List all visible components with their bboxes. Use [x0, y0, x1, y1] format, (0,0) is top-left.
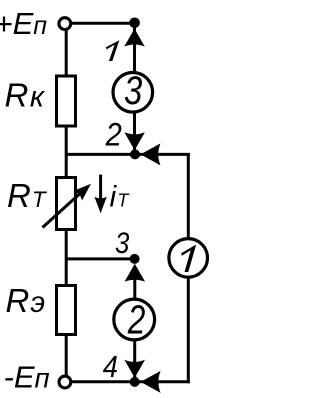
svg-text:Rк: Rк — [5, 77, 46, 114]
label 1 — [106, 40, 119, 61]
meter circle 1 — [169, 239, 208, 278]
svg-text:3: 3 — [115, 226, 130, 259]
wire Re to terminal — [65, 334, 68, 376]
meter circle 2 — [114, 299, 155, 340]
svg-text:2: 2 — [127, 296, 145, 342]
svg-text:3: 3 — [124, 68, 143, 113]
arrow up into node 1 — [124, 29, 145, 47]
node 2 dot — [130, 149, 140, 159]
svg-text:-Eп: -Eп — [4, 360, 50, 395]
wire Rk to Rt — [65, 126, 68, 178]
wire meter2 to node 4 — [133, 341, 136, 378]
arrow up into node 3 — [125, 264, 146, 282]
arrow left into node 4 from right branch — [141, 371, 161, 393]
resistor Rk — [57, 76, 76, 126]
digit 1 of meter — [181, 245, 196, 273]
wire node3 horizontal — [65, 257, 134, 260]
node 3 dot — [130, 254, 140, 264]
right branch wire lower (meter 1 to bottom corner) — [187, 278, 190, 384]
svg-text:2: 2 — [105, 117, 122, 153]
resistor Re — [57, 286, 76, 335]
wire meter3 to node 2 — [133, 113, 136, 153]
wire Rt to Re — [65, 230, 68, 285]
wire middle column upper (node1 to meter 3) — [133, 24, 136, 73]
terminal -Eп — [59, 376, 71, 388]
node 4 dot — [130, 377, 140, 387]
arrow left into node 2 from right branch — [141, 143, 161, 165]
wire top (terminal to node 1) — [71, 22, 134, 25]
svg-text:Rэ: Rэ — [6, 282, 46, 319]
svg-text:RТ: RТ — [7, 177, 48, 214]
terminal +Eп — [59, 18, 71, 30]
wire bottom (terminal to corner) — [72, 380, 190, 383]
current arrow it — [99, 175, 102, 200]
arrow down into node 2 — [124, 132, 145, 150]
right branch wire upper (corner to meter 1) — [187, 153, 190, 238]
node 1 junction dot — [129, 18, 140, 29]
wire node3 to meter 2 — [133, 267, 136, 299]
wire node2 horizontal — [65, 153, 190, 156]
svg-text:iТ: iТ — [110, 181, 131, 214]
svg-text:+Eп: +Eп — [0, 6, 47, 41]
thermistor diagonal arrow — [43, 189, 86, 228]
meter circle 3 — [113, 73, 153, 113]
svg-text:4: 4 — [103, 350, 118, 384]
resistor Rt (thermistor) — [57, 178, 76, 230]
arrow down into node 4 — [124, 360, 145, 378]
left branch wire (terminal to Rk) — [65, 29, 68, 76]
